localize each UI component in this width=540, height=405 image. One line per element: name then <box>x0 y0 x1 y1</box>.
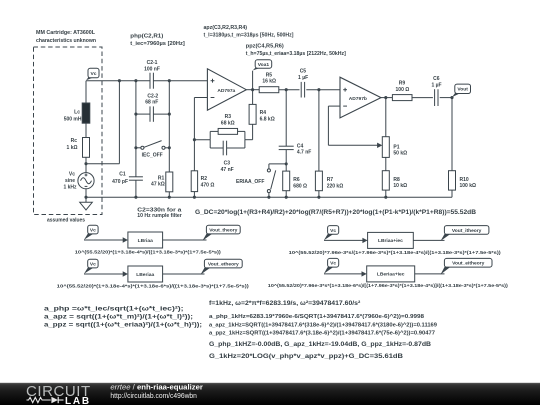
svg-text:G_DC=20*log(1+(R3+R4)/R2)+20*l: G_DC=20*log(1+(R3+R4)/R2)+20*log(R7/(R5+… <box>195 209 476 216</box>
svg-text:ppz(C4,R5,R6): ppz(C4,R5,R6) <box>246 43 284 49</box>
svg-text:R5: R5 <box>266 72 273 78</box>
svg-text:LBeriaa: LBeriaa <box>136 272 154 278</box>
svg-text:500 mH: 500 mH <box>64 116 82 122</box>
svg-text:LBriaa: LBriaa <box>138 238 154 244</box>
svg-text:R1: R1 <box>158 175 165 181</box>
svg-text:C6: C6 <box>433 76 440 82</box>
svg-text:10^(55.52/20)*7.96e-3*s/(1+7.9: 10^(55.52/20)*7.96e-3*s/(1+7.96e-3*s)*(1… <box>289 250 502 255</box>
svg-text:Vc: Vc <box>91 71 97 77</box>
svg-text:http://circuitlab.com/c496wbn: http://circuitlab.com/c496wbn <box>110 391 196 400</box>
svg-text:Vout_etheory: Vout_etheory <box>208 261 239 267</box>
svg-text:10^(55.52/20)*(1+3.18e-4*s)*(1: 10^(55.52/20)*(1+3.18e-4*s)*(1+3.18e-6*s… <box>57 284 250 289</box>
svg-text:R10: R10 <box>460 177 469 183</box>
svg-text:1 µF: 1 µF <box>298 75 308 81</box>
svg-text:G_php_1kHZ=-0.00dB, G_apz_1kHz: G_php_1kHZ=-0.00dB, G_apz_1kHz=-19.04dB,… <box>209 341 431 348</box>
svg-text:Vout_theory: Vout_theory <box>209 227 237 233</box>
svg-text:R7: R7 <box>327 177 334 183</box>
svg-text:10^(55.52/20)*(1+3.18e-4*s)/((: 10^(55.52/20)*(1+3.18e-4*s)/((1+3.18e-3*… <box>75 249 222 254</box>
svg-text:a_php =ω*t_iec/sqrt(1+(ω*t_iec: a_php =ω*t_iec/sqrt(1+(ω*t_iec)²); <box>44 306 184 313</box>
svg-text:AD797b: AD797b <box>349 96 367 102</box>
svg-text:470 Ω: 470 Ω <box>201 183 215 189</box>
svg-text:a_ppz_1kHz=SQRT((1+39478417.6*: a_ppz_1kHz=SQRT((1+39478417.6*(3.18e-6)^… <box>209 331 435 337</box>
svg-text:t_l=3180µs,t_m=318µs [50Hz, 50: t_l=3180µs,t_m=318µs [50Hz, 500Hz] <box>204 32 294 38</box>
svg-text:100 Ω: 100 Ω <box>396 87 410 93</box>
svg-text:100 nF: 100 nF <box>144 67 160 73</box>
svg-text:Lc: Lc <box>74 109 80 115</box>
svg-text:R9: R9 <box>399 81 406 87</box>
svg-text:470 pF: 470 pF <box>112 179 128 185</box>
svg-text:C4: C4 <box>297 144 304 150</box>
svg-text:R6: R6 <box>293 177 300 183</box>
svg-text:C2-2: C2-2 <box>147 93 158 99</box>
svg-text:assumed values: assumed values <box>47 217 85 223</box>
svg-text:a_apz = sqrt((1+(ω*t_m)²)/(1+(: a_apz = sqrt((1+(ω*t_m)²)/(1+(ω*t_l)²)); <box>44 314 193 321</box>
svg-text:Vc: Vc <box>330 228 336 234</box>
svg-text:680 Ω: 680 Ω <box>293 183 307 189</box>
svg-text:R2: R2 <box>201 176 208 182</box>
svg-text:10^(55.52/20)*7.96e-3*s*(1+3.1: 10^(55.52/20)*7.96e-3*s*(1+3.18e-6*s)/[(… <box>268 283 509 288</box>
svg-text:50 kΩ: 50 kΩ <box>393 150 407 156</box>
svg-text:php(C2,R1): php(C2,R1) <box>130 34 163 40</box>
svg-text:AD797a: AD797a <box>217 88 235 94</box>
svg-text:LBeriaa+iec: LBeriaa+iec <box>377 272 405 278</box>
svg-text:68 kΩ: 68 kΩ <box>221 120 235 126</box>
svg-text:Vc: Vc <box>90 227 96 233</box>
svg-text:LAB: LAB <box>65 396 91 405</box>
svg-text:10 Hz rumple filter: 10 Hz rumple filter <box>137 213 182 219</box>
svg-text:MM Cartridge: AT3600L: MM Cartridge: AT3600L <box>36 30 96 36</box>
svg-text:C3: C3 <box>224 161 231 167</box>
svg-text:IEC_OFF: IEC_OFF <box>142 153 163 159</box>
svg-text:C1: C1 <box>119 171 126 177</box>
svg-text:a_php_1kHz=6283.19*7960e-6/SQR: a_php_1kHz=6283.19*7960e-6/SQRT(1+394784… <box>209 314 424 320</box>
svg-text:Voa1: Voa1 <box>258 62 270 68</box>
svg-text:4.7 nF: 4.7 nF <box>297 150 311 156</box>
svg-text:100 kΩ: 100 kΩ <box>460 183 477 189</box>
svg-text:Rc: Rc <box>71 138 78 144</box>
svg-text:G_1kHz=20*LOG(v_php*v_apz*v_pp: G_1kHz=20*LOG(v_php*v_apz*v_ppz)+G_DC=35… <box>209 353 403 360</box>
svg-text:t_iec=7960µs [20Hz]: t_iec=7960µs [20Hz] <box>130 41 185 47</box>
svg-text:Vc: Vc <box>69 172 75 178</box>
svg-text:1 µF: 1 µF <box>431 83 441 89</box>
svg-text:Vout_itheory: Vout_itheory <box>452 228 482 234</box>
svg-text:a_apz_1kHz=SQRT((1+39478417.6*: a_apz_1kHz=SQRT((1+39478417.6*(318e-6)^2… <box>209 322 437 328</box>
svg-text:10 kΩ: 10 kΩ <box>393 183 407 189</box>
svg-text:Vc: Vc <box>90 261 96 267</box>
svg-text:LBriaa+iec: LBriaa+iec <box>378 238 403 244</box>
svg-text:R4: R4 <box>260 110 267 116</box>
svg-text:220 kΩ: 220 kΩ <box>327 183 344 189</box>
svg-text:Vc: Vc <box>330 261 336 267</box>
svg-text:1 kHz: 1 kHz <box>63 185 77 191</box>
svg-text:a_ppz = sqrt((1+(ω*t_eriaa)²)/: a_ppz = sqrt((1+(ω*t_eriaa)²)/(1+(ω*t_h)… <box>44 322 202 329</box>
svg-text:R8: R8 <box>393 177 400 183</box>
svg-text:C5: C5 <box>300 69 307 75</box>
svg-text:68 nF: 68 nF <box>145 99 158 105</box>
svg-text:Vout_eitheory: Vout_eitheory <box>452 261 485 267</box>
svg-text:sine: sine <box>65 178 75 184</box>
svg-text:P1: P1 <box>393 144 399 150</box>
svg-text:R3: R3 <box>225 114 232 120</box>
svg-text:apz(C3,R2,R3,R4): apz(C3,R2,R3,R4) <box>204 25 248 31</box>
svg-text:1 kΩ: 1 kΩ <box>67 145 78 151</box>
svg-text:6.8 kΩ: 6.8 kΩ <box>260 116 275 122</box>
svg-text:47 kΩ: 47 kΩ <box>151 182 165 188</box>
svg-text:Vout: Vout <box>457 87 468 93</box>
svg-text:16 kΩ: 16 kΩ <box>262 79 276 85</box>
svg-text:47 nF: 47 nF <box>221 167 234 173</box>
svg-text:t_h=75µs,t_eriaa=3.18µs [2122H: t_h=75µs,t_eriaa=3.18µs [2122Hz, 50kHz] <box>246 51 346 57</box>
svg-text:characteristics unknown: characteristics unknown <box>36 38 96 44</box>
svg-text:C2-1: C2-1 <box>147 60 158 66</box>
svg-text:f=1kHz, ω=2*π*f=6283.19/s, ω²=: f=1kHz, ω=2*π*f=6283.19/s, ω²=39478417.6… <box>209 300 360 307</box>
svg-text:ERIAA_OFF: ERIAA_OFF <box>236 179 264 185</box>
